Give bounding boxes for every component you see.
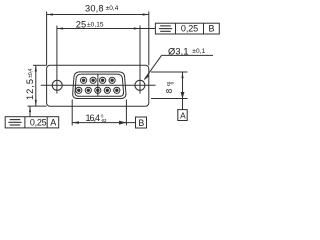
dimension 16,4 left arrow xyxy=(72,121,79,124)
shell top extension line right xyxy=(151,71,188,73)
dimension 30,8 left arrow xyxy=(47,13,53,15)
feature control frame A divider 1 xyxy=(24,117,26,128)
svg-text:±0,4: ±0,4 xyxy=(28,68,34,77)
pin 9 contact xyxy=(115,89,118,92)
pin 2 ring xyxy=(90,77,96,83)
right mounting hole xyxy=(135,80,145,90)
svg-text:30,8: 30,8 xyxy=(85,4,104,14)
dimension 12,5 bottom extension xyxy=(28,105,47,107)
leader diagonal to mounting hole xyxy=(145,55,162,79)
dimension 8 line xyxy=(182,72,184,110)
pin 1 contact xyxy=(82,79,85,82)
svg-text:A: A xyxy=(180,111,186,121)
dimension 16,4 right arrow xyxy=(119,121,126,125)
dimension 25 left extension with hole centerline xyxy=(56,26,58,94)
shell inner outline xyxy=(75,74,124,96)
dimension 12,5 line xyxy=(35,65,37,106)
svg-text:B: B xyxy=(138,118,144,128)
pin 4 ring xyxy=(109,77,115,83)
pin 6 contact xyxy=(87,89,90,92)
pin 7 contact xyxy=(96,89,99,92)
dimension 12,5 top arrow xyxy=(35,65,37,71)
dimension 25 left arrow xyxy=(57,27,63,29)
dimension 30,8 left extension xyxy=(46,12,48,66)
pin 5 contact xyxy=(77,89,80,92)
svg-text:±0,15: ±0,15 xyxy=(87,21,104,28)
dimension 12,5 bottom arrow xyxy=(35,100,37,106)
dimension 25 line xyxy=(57,28,140,30)
pin 7 ring xyxy=(95,87,101,93)
pin 9 ring xyxy=(114,87,120,93)
datum A box xyxy=(178,110,187,121)
dimension 25 stub to FCF B xyxy=(140,28,155,30)
symmetry symbol in FCF A xyxy=(8,120,21,125)
dimension 8 bottom arrow xyxy=(181,92,185,99)
pin 8 contact xyxy=(106,89,109,92)
pin 6 ring xyxy=(85,87,91,93)
svg-text:±0,1: ±0,1 xyxy=(192,48,205,55)
dimension 25 right arrow xyxy=(134,27,140,29)
feature control frame B divider 1 xyxy=(175,23,177,34)
svg-text:B: B xyxy=(209,24,215,34)
shell bottom extension line right xyxy=(151,98,188,100)
svg-text:0,25: 0,25 xyxy=(30,118,47,128)
pin 1 ring xyxy=(81,77,87,83)
vertical centerline through shell xyxy=(97,74,99,96)
feature control frame A box xyxy=(5,117,59,128)
FCF A leader arrow xyxy=(29,106,31,112)
left mounting hole xyxy=(52,80,62,90)
pin 4 contact xyxy=(110,79,113,82)
leader underline for hole diameter xyxy=(162,54,214,56)
dimension 16,4 right extension xyxy=(125,100,127,126)
pin 2 contact xyxy=(91,79,94,82)
svg-text:12,5: 12,5 xyxy=(25,79,35,100)
dimension 30,8 line xyxy=(47,14,149,16)
dimension 30,8 right extension xyxy=(148,12,150,66)
svg-text:8: 8 xyxy=(165,88,174,93)
pin 3 contact xyxy=(101,79,104,82)
dimension 8 top arrow xyxy=(181,72,183,78)
dimension 12,5 top extension xyxy=(33,64,47,66)
svg-text:-0,3: -0,3 xyxy=(101,118,107,123)
shell outer outline xyxy=(73,72,126,99)
svg-text:A: A xyxy=(50,118,56,128)
dimension 16,4 line xyxy=(72,122,135,124)
feature control frame B box xyxy=(155,23,219,34)
pin 8 ring xyxy=(104,87,110,93)
dimension 16,4 left extension xyxy=(71,100,73,126)
symmetry symbol in FCF B xyxy=(159,26,172,31)
svg-text:±0,4: ±0,4 xyxy=(106,5,119,12)
svg-text:25: 25 xyxy=(76,20,86,30)
datum B box xyxy=(136,117,147,128)
svg-text:0,25: 0,25 xyxy=(181,24,198,34)
leader arrowhead at hole xyxy=(143,75,149,81)
svg-text:-0,1: -0,1 xyxy=(166,81,171,87)
feature control frame A divider 2 xyxy=(46,117,48,128)
dimension 30,8 right arrow xyxy=(143,13,149,15)
dimension 25 right extension with hole centerline xyxy=(139,26,141,94)
pin 3 ring xyxy=(100,77,106,83)
feature control frame B divider 2 xyxy=(203,23,205,34)
svg-text:16,4: 16,4 xyxy=(86,113,101,123)
pin 5 ring xyxy=(76,87,82,93)
FCF A leader line xyxy=(29,106,31,116)
horizontal centerline xyxy=(41,84,156,86)
flange outline xyxy=(47,65,149,106)
svg-text:Ø3,1: Ø3,1 xyxy=(168,46,189,56)
